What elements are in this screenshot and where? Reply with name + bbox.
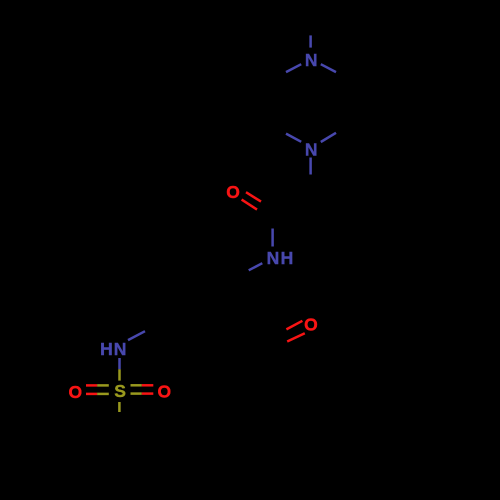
wire amide C=O double bond red half line 2: [242, 200, 257, 210]
svg-text:O: O: [226, 182, 240, 202]
wire S=O right lower olive half: [131, 392, 142, 395]
svg-text:N: N: [305, 50, 318, 70]
svg-text:H: H: [100, 339, 113, 359]
wire amide C=O double bond red half line 1: [246, 192, 261, 201]
wire N1-C6 ring half-bond: [321, 64, 336, 72]
svg-text:S: S: [114, 381, 126, 401]
wire N1 methyl half-bond: [309, 35, 312, 47]
wire S=O right lower red half: [142, 392, 154, 395]
wire S-C half-bond below S: [118, 402, 121, 412]
wire S=O right upper red half: [142, 384, 154, 387]
svg-text:N: N: [267, 248, 280, 268]
wire amide N-ring half-bond: [249, 263, 263, 270]
wire S=O left lower olive half: [97, 393, 109, 396]
wire N1-C2 ring half-bond: [286, 64, 301, 72]
wire N-S bond blue half: [118, 358, 121, 369]
wire S=O left upper red half: [86, 384, 97, 387]
wire ketone C=O red half line 1: [286, 321, 302, 330]
wire S=O left upper olive half: [97, 384, 109, 387]
wire N-S bond olive half: [118, 369, 121, 380]
svg-text:O: O: [157, 382, 171, 402]
svg-text:N: N: [114, 339, 127, 359]
svg-text:N: N: [305, 140, 318, 160]
wire S=O right upper olive half: [131, 384, 142, 387]
wire ketone C=O red half line 2: [287, 333, 305, 341]
svg-text:O: O: [304, 315, 318, 335]
wire S=O left lower red half: [86, 393, 97, 396]
svg-text:H: H: [281, 248, 294, 268]
svg-text:O: O: [68, 382, 82, 402]
wire N4-C3 ring half-bond: [286, 134, 301, 142]
wire N4-C5 ring half-bond: [321, 133, 336, 142]
wire sulfonamide N-ring half-bond: [128, 331, 145, 340]
wire amide N-C half-bond: [271, 229, 274, 247]
wire N4-CH2 half-bond: [309, 158, 312, 175]
